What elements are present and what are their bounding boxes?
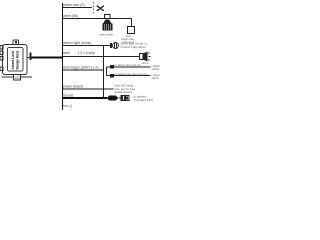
label W1 bbox=[63, 3, 85, 7]
module U1 right connector bar bbox=[30, 53, 32, 61]
svg-text:to passenger door pin sw: to passenger door pin sw bbox=[115, 72, 148, 76]
inline fuse holder F1 bbox=[107, 96, 119, 101]
module U1 bottom connector label 131 bbox=[14, 75, 21, 81]
wire: module to bus (main harness) bbox=[32, 57, 64, 59]
wire W2 (horn output) bbox=[63, 19, 132, 27]
label W6 bbox=[63, 85, 83, 89]
scissors / cut symbol bbox=[97, 6, 104, 12]
wire W6 (fused power) bbox=[63, 88, 114, 90]
svg-text:ground: ground bbox=[63, 94, 73, 98]
svg-text:siren: siren bbox=[63, 51, 70, 55]
svg-text:interior light (dome): interior light (dome) bbox=[63, 41, 91, 45]
label J1 bbox=[134, 95, 154, 102]
svg-text:Range Mod: Range Mod bbox=[16, 51, 20, 69]
horn relay box bbox=[121, 27, 135, 45]
label W5b bbox=[115, 72, 148, 76]
dome light bulb DS1 bbox=[110, 42, 147, 50]
svg-text:switch: switch bbox=[152, 76, 160, 80]
wire W3 (dome light) bbox=[63, 45, 111, 47]
vertical bus wire bbox=[62, 3, 64, 110]
svg-text:starter wire (P): starter wire (P) bbox=[63, 3, 85, 7]
label W7 bbox=[63, 94, 73, 98]
connector J1 (to battery) bbox=[121, 95, 129, 100]
svg-text:power (fused): power (fused) bbox=[63, 85, 83, 89]
module U1 bottom rail line bbox=[2, 76, 33, 78]
module U1 outer case bbox=[3, 45, 28, 75]
module U1 left pin stubs bbox=[0, 46, 3, 71]
svg-text:131: 131 bbox=[14, 76, 20, 80]
end note W5b bbox=[152, 73, 161, 80]
label W2 bbox=[63, 14, 78, 18]
svg-text:siren (unit): siren (unit) bbox=[100, 33, 113, 37]
svg-text:white (BK): white (BK) bbox=[63, 14, 78, 18]
bottom label (brown wire) bbox=[63, 104, 72, 108]
label W3 bbox=[63, 41, 91, 45]
label W4 bbox=[63, 51, 95, 55]
diode D2 bbox=[110, 74, 114, 78]
svg-text:brn (-): brn (-) bbox=[63, 104, 72, 108]
note: fuse rating bbox=[115, 84, 136, 95]
svg-text:siren: siren bbox=[142, 61, 149, 65]
svg-text:(constant 12V): (constant 12V) bbox=[134, 98, 154, 102]
wire W4 (siren output) bbox=[63, 56, 140, 58]
wire: fuse to connector bbox=[119, 97, 122, 99]
cut line (dashed) bbox=[93, 2, 95, 13]
door trigger split bracket bbox=[107, 67, 111, 76]
wire W5 (door trigger) bbox=[63, 69, 104, 71]
branch wire W5b bbox=[114, 75, 151, 77]
svg-text:(+) 1.5 amp: (+) 1.5 amp bbox=[78, 51, 95, 55]
vertical branch wire (dome to ground) bbox=[103, 46, 105, 98]
svg-text:Smart Lock: Smart Lock bbox=[11, 51, 15, 70]
svg-text:to driver door pin sw: to driver door pin sw bbox=[115, 63, 142, 67]
diode D1 bbox=[110, 65, 114, 69]
module U1 inner label panel bbox=[8, 48, 24, 72]
wire W1 (cut wire) bbox=[63, 7, 92, 9]
svg-text:(interior light wires): (interior light wires) bbox=[121, 45, 146, 49]
wire: module to right connector bbox=[27, 57, 30, 59]
svg-text:details above): details above) bbox=[115, 90, 132, 94]
branch wire W5a bbox=[114, 66, 151, 68]
svg-text:switch: switch bbox=[152, 67, 160, 71]
svg-text:door trigger (GRY) (-) 2x: door trigger (GRY) (-) 2x bbox=[63, 66, 99, 70]
label W5 bbox=[63, 66, 99, 70]
horn LS1 (bell pointing down) bbox=[100, 15, 113, 37]
module U1 top connector tab C2 bbox=[13, 40, 19, 45]
end note W5a bbox=[152, 64, 161, 71]
wire W7 (ground / battery feed) bbox=[63, 97, 107, 99]
label W5a bbox=[115, 63, 142, 67]
siren speaker LS2 bbox=[140, 52, 151, 66]
